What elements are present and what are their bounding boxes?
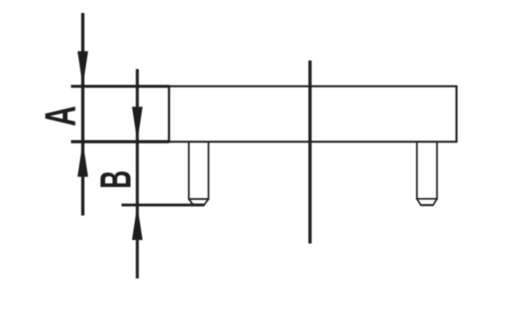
extension line middle (body bottom edge extended left) — [71, 140, 169, 143]
extension line bottom (pin tip level) — [122, 204, 205, 207]
arrowhead B down (points to body bottom) — [132, 107, 143, 142]
arrowhead A up (points to body bottom) — [78, 142, 89, 177]
arrowhead B up (points to pin tip level) — [132, 205, 143, 240]
pin 2 (right solder pin) — [416, 142, 438, 205]
svg-text:B: B — [90, 170, 140, 188]
dimension line B — [136, 69, 139, 279]
body outline (long housing rectangle) — [169, 85, 457, 142]
pin 1 (left solder pin) — [188, 142, 209, 205]
extension line top (body top edge extended left) — [71, 85, 169, 88]
dimension line A — [81, 13, 84, 216]
center line — [308, 61, 311, 244]
arrowhead A down (points to body top) — [78, 51, 89, 86]
svg-text:A: A — [35, 106, 85, 127]
